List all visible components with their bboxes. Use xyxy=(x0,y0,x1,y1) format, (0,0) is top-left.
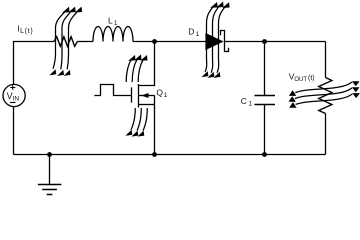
wire: bottom rail xyxy=(14,154,326,156)
mosfet Q1 body stub xyxy=(139,95,155,97)
ripple arrows: diode current xyxy=(202,2,230,78)
svg-text:IL(t): IL(t) xyxy=(17,24,33,36)
svg-text:Q1: Q1 xyxy=(156,88,167,100)
ripple zigzag on input wire xyxy=(54,37,77,47)
mosfet Q1 source stub xyxy=(139,104,155,106)
inductor L1 xyxy=(93,27,133,42)
ripple arrows: switch current upper xyxy=(126,55,147,83)
mosfet Q1 gate bar xyxy=(131,87,133,102)
junction: ground tap xyxy=(47,152,52,157)
junction: switch node (drain) xyxy=(152,39,157,44)
ripple arrows: output voltage xyxy=(289,81,360,107)
wire: zigzag to inductor xyxy=(77,41,93,43)
wire: inductor to diode anode xyxy=(133,41,206,43)
ripple arrows: switch current lower xyxy=(125,108,147,137)
diode D1 cathode bar with schottky hooks xyxy=(221,31,229,52)
mosfet Q1 gate pulse symbol xyxy=(94,85,131,96)
svg-text:L1: L1 xyxy=(108,15,118,27)
wire: input branch from Vin top to ripple zigzag xyxy=(14,42,55,85)
junction: C1 bottom on bottom rail xyxy=(262,152,267,157)
wire: cathode to output node xyxy=(225,41,326,43)
mosfet Q1 source wire to bottom rail xyxy=(154,96,156,155)
mosfet Q1 drain stub and wire to top rail xyxy=(139,42,155,86)
voltage source minus sign xyxy=(10,102,15,104)
svg-text:C1: C1 xyxy=(241,96,253,108)
diode D1 (Schottky) triangle xyxy=(205,33,223,50)
ground bars xyxy=(38,185,61,195)
capacitor C1 top wire xyxy=(264,42,266,96)
ripple arrows: inductor current xyxy=(49,7,82,76)
capacitor C1 bottom wire xyxy=(264,105,266,155)
wire: load resistor to bottom rail xyxy=(325,114,327,155)
resistor: output load xyxy=(319,78,332,114)
svg-text:VOUT(t): VOUT(t) xyxy=(289,71,315,83)
ground stem xyxy=(49,155,51,185)
mosfet Q1 channel bar xyxy=(138,84,140,108)
junction: output node top xyxy=(262,39,267,44)
capacitor C1 plates xyxy=(255,96,276,105)
svg-text:VIN: VIN xyxy=(7,91,20,102)
voltage source plus sign xyxy=(10,85,15,90)
junction: switch source on bottom rail xyxy=(152,152,157,157)
wire: output node down to load resistor xyxy=(325,42,327,78)
mosfet Q1 body arrow xyxy=(141,93,148,98)
voltage source VIN circle xyxy=(3,84,25,106)
svg-text:D1: D1 xyxy=(188,27,199,39)
wire: Vin bottom to bottom rail xyxy=(13,106,15,154)
